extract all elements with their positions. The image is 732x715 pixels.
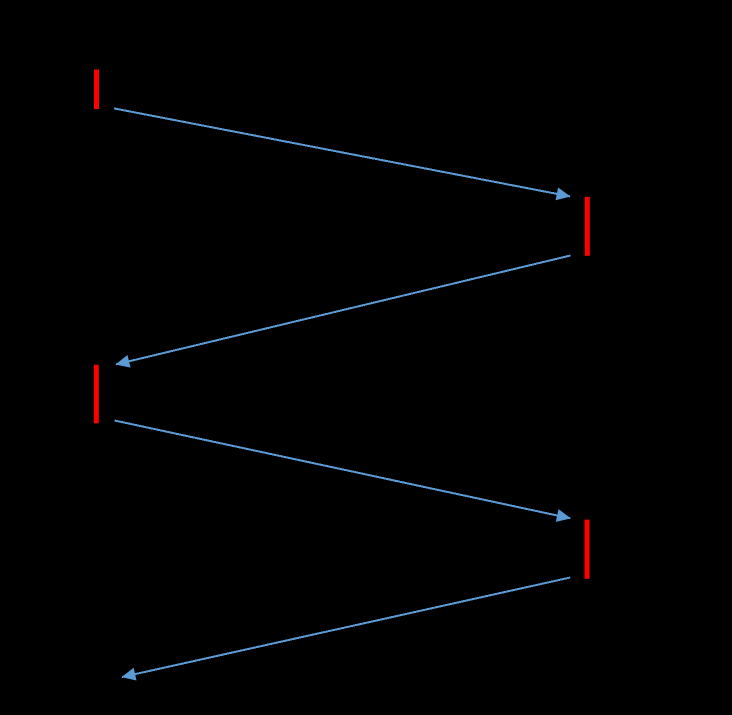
bar 4 (receiver receive 2) [585,520,590,579]
arrow 2 (receiver to sender) [116,256,571,365]
bar 1 (sender transmit 1) [94,70,99,110]
arrow 4 (receiver to sender) [122,578,570,678]
bar 3 (sender transmit 2) [94,365,99,424]
bar 2 (receiver receive 1) [585,197,590,256]
arrow 3 (sender to receiver) [115,421,571,519]
arrow 1 (sender to receiver) [114,108,570,196]
